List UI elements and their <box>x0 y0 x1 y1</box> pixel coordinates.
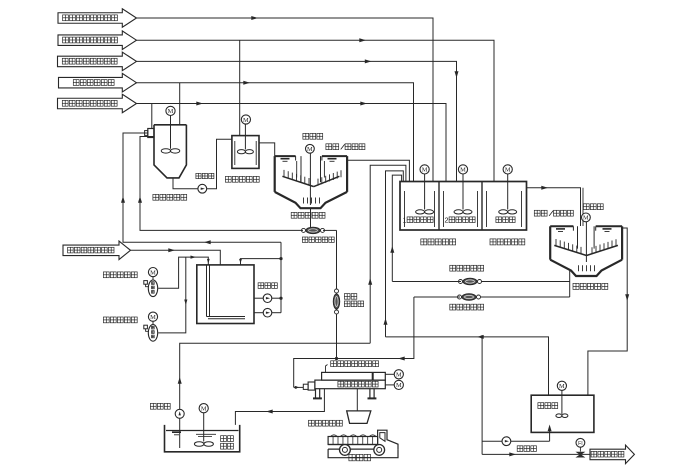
wire: clarifier-2 underflow <box>570 271 572 297</box>
wire: coagulant-aid line to stage-2 box <box>137 38 495 181</box>
wire: wastewater feed into tank <box>131 248 221 265</box>
inlet side box of stage-1 reactor <box>145 129 154 138</box>
wire: feed into machine inlet <box>294 386 304 389</box>
wire: chelating agent line to stage-2 box <box>137 59 459 181</box>
blower 风机 2 with motor <box>144 312 158 341</box>
wire: lime milk line to stage-2 box <box>137 102 447 182</box>
vessel: aeration/equalization tank <box>197 265 254 324</box>
wire: pump-1 sludge return into stage-2 box <box>390 175 401 281</box>
wire: sludge line to dewatering drop <box>323 230 337 288</box>
vessel: 出水箱 outlet water tank <box>531 390 594 432</box>
pump 出水泵 (final) <box>482 425 551 446</box>
motor M of outlet tank <box>557 381 566 390</box>
label 电动污泥斗 <box>309 420 343 426</box>
vessel: 一级反应器 stage-1 reactor <box>154 116 186 178</box>
motor M compartment 2 <box>454 165 472 214</box>
wire: flocculation box outlet to clarifier 1 <box>259 143 275 156</box>
pit mixer impeller with motor <box>194 404 213 447</box>
source banner: 自石灰乳计量泵来 <box>58 94 137 113</box>
blower 风机 1 with motor <box>144 268 158 297</box>
wire: outlet-tank water return into stage-2 box <box>384 171 404 337</box>
pump 出水泵 (stage-1 transfer pump) <box>198 184 207 193</box>
vessel: 电动污泥斗 electric sludge hopper <box>347 411 371 424</box>
wire: clarifier-1 underflow drop <box>310 208 312 230</box>
svg-text:M: M <box>243 117 249 124</box>
label 污泥循环泵 (pump 1) <box>450 265 484 271</box>
source banner: 自助凝剂计量泵来 <box>58 31 137 50</box>
pump 污泥循环泵 2 <box>414 294 570 300</box>
wire: lime branch into stage-1 reactor inlet box <box>151 104 153 129</box>
svg-text:M: M <box>150 269 156 276</box>
label 澄清/浓缩池 (clarifier 2) <box>534 210 573 216</box>
source banner: 自酸计量泵来 <box>59 73 137 92</box>
label 废气排放至室外 with leader <box>326 361 379 373</box>
wire: acid branch into stage-1 reactor <box>179 83 181 125</box>
pump 出水泵 lower <box>254 308 272 317</box>
label 运泥车 <box>349 454 371 460</box>
motor M of clarifier-1 scraper 刮泥机 <box>306 144 315 153</box>
svg-text:M: M <box>505 167 511 174</box>
label 二级反应器 <box>421 239 456 245</box>
truck 运泥车 <box>328 430 398 458</box>
wire: pump-2 discharge to dewatering feed <box>294 297 414 387</box>
pump 污泥循环泵 (clarifier-1 sludge recirc) <box>302 227 325 233</box>
wire: sludge recirc to stage-1 reactor inlet <box>138 137 303 231</box>
wire: centrate drain to pit <box>235 389 324 425</box>
motor M of clarifier-2 scraper <box>582 213 591 222</box>
vessel: 一级澄清池 stage-1 clarifier <box>275 153 347 208</box>
label 污泥 循环泵 (vertical pump) <box>344 294 363 307</box>
label 污泥循环泵 <box>302 237 334 242</box>
label 空气过滤器 1 <box>103 272 137 278</box>
svg-text:FI: FI <box>578 441 583 447</box>
source banner: 脱硫工艺来废水 <box>63 241 131 259</box>
label 一级反应器 <box>153 194 187 200</box>
label 絮凝箱 compartment 3 <box>496 217 515 223</box>
wire: blower-2 air line <box>158 257 187 333</box>
label 二级澄清池 <box>573 283 608 289</box>
pump 排污泵 pit pump <box>175 409 184 448</box>
label 一级絮凝箱 <box>225 176 259 182</box>
svg-text:M: M <box>168 108 174 115</box>
wire: acid line to stage-2 box <box>137 81 414 182</box>
wire: pumps manifold riser <box>272 242 281 313</box>
svg-text:M: M <box>396 372 402 379</box>
vessel: 一级絮凝箱 stage-1 flocculation box <box>232 124 259 168</box>
wire: clarifier-2 overflow to outlet tank <box>588 228 629 395</box>
svg-text:M: M <box>422 167 428 174</box>
svg-text:M: M <box>307 146 313 153</box>
svg-text:M: M <box>460 167 466 174</box>
vessel: stage-2 reactor/flocculation box <box>400 182 527 231</box>
flow indicator FI <box>576 438 585 457</box>
svg-text:1: 1 <box>403 215 407 224</box>
wire: blower-1 air line <box>158 256 210 289</box>
vessel: 二级澄清池 stage-2 clarifier <box>550 222 622 276</box>
label 出水箱 <box>538 403 558 409</box>
wire: pump discharge up into flocculation box <box>207 139 232 189</box>
label 出水泵 <box>196 173 214 178</box>
wire: pit pump riser to stage-2 return <box>178 343 371 409</box>
wire: stage-2 box outlet to clarifier 2 <box>527 186 584 226</box>
label 离心式脱水机 <box>338 381 378 387</box>
svg-text:M: M <box>396 382 402 389</box>
wire: discharge drop line <box>481 337 483 455</box>
wire: pit water return into stage-2 box <box>368 165 406 343</box>
label 二级絮凝箱 <box>490 239 525 245</box>
label 空气过滤器 2 <box>103 317 137 323</box>
wire: coagulant-aid branch down into stage-1 flocculation box <box>239 40 241 135</box>
label 排污泵 <box>150 403 170 409</box>
label 2号反应器 <box>445 215 476 224</box>
vessel: 排水地坑 drainage pit <box>165 425 240 452</box>
wire: recycle line to stage-1 reactor inlet (flows left) <box>121 133 281 244</box>
machine: 离心式脱水机 centrifuge dewatering machine <box>303 372 385 398</box>
svg-text:M: M <box>201 406 207 413</box>
wire: reactor outlet to pump <box>173 178 198 189</box>
label 排水地坑 <box>221 436 234 449</box>
motor M compartment 1 <box>416 165 434 214</box>
pump 污泥循环泵 (vertical, clarifier-1 sludge to dewatering) <box>333 288 339 359</box>
wire: cake discharge to hopper <box>356 389 358 411</box>
wire: outlet tank to stage-2 return header <box>386 335 549 395</box>
source banner: 自螯合剂计量泵来 <box>58 52 137 71</box>
svg-text:M: M <box>583 215 589 222</box>
label 出水泵 (tank pumps) <box>258 283 277 289</box>
wire: discharge line with flow indicator <box>482 452 590 456</box>
label 出水泵 (final) <box>517 446 536 452</box>
pump 出水泵 upper <box>254 294 272 303</box>
wire: branch into tank top <box>239 259 281 265</box>
label 一级澄清池 <box>291 212 325 218</box>
label 1号反应器 <box>403 215 434 224</box>
sink banner: 排放或回用 <box>590 445 634 464</box>
pump 污泥循环泵 1 <box>392 278 569 284</box>
wire: clarifier-1 overflow to stage-2 box <box>347 160 409 181</box>
label 刮泥机 <box>303 133 323 139</box>
motor M of stage-1 reactor <box>166 106 175 115</box>
label 刮泥机 (clarifier 2) <box>583 204 603 210</box>
motor M compartment 3 <box>499 165 517 214</box>
svg-text:M: M <box>559 383 565 390</box>
svg-text:M: M <box>150 314 156 321</box>
wire: flocculant line to stage-2 box <box>137 16 434 182</box>
source banner: 自絮凝剂计量泵来 <box>58 9 137 28</box>
label 澄清/浓缩池 <box>326 144 365 150</box>
svg-text:2: 2 <box>445 215 449 224</box>
label 污泥循环泵 (pump 2) <box>450 304 484 310</box>
motors M of dewatering machine <box>385 370 403 390</box>
motor M of flocculation box <box>241 115 250 124</box>
